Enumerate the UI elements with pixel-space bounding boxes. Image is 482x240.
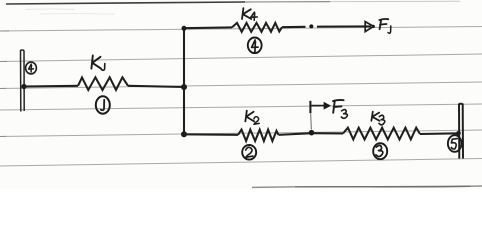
node label 5 (circled) at right wall: [448, 135, 462, 152]
ruled line 1: [0, 27, 482, 32]
element number 3 (circled): [373, 143, 387, 159]
wire from spring K3 to right wall: [420, 132, 459, 135]
ruled line 5: [0, 130, 482, 137]
node dot bottom of connector: [181, 131, 187, 137]
node label 4 (circled) at left wall: [26, 62, 37, 74]
paper background: [0, 0, 482, 189]
ruled line 6: [0, 159, 482, 167]
spring K3: [343, 128, 420, 140]
label K2: [245, 111, 259, 125]
spring K2: [238, 130, 279, 141]
faint pencil smudge top-left: [25, 8, 75, 11]
wall W2 (right fixed support): [459, 104, 463, 159]
wire from spring K2 to F3 node: [279, 133, 312, 135]
label F1: [379, 19, 390, 33]
element number 4 (circled): [248, 38, 262, 54]
force arrow F3 with reference tick: [310, 101, 330, 130]
force arrow F1: [317, 22, 375, 32]
label K3: [371, 112, 384, 125]
label F3: [333, 100, 347, 118]
wire top branch to spring K4: [184, 26, 232, 29]
ruled line left-edge dark ticks: [0, 31, 9, 137]
ruled line 2: [0, 54, 482, 62]
wire from F3 node to spring K3: [312, 132, 344, 134]
spring K1: [78, 77, 128, 90]
wire bottom branch to spring K2: [184, 133, 238, 136]
junction dot at right wall: [456, 131, 461, 136]
label K4: [242, 8, 257, 20]
node dot before force F1: [309, 24, 313, 28]
ruled line 3: [0, 82, 482, 89]
top page edge line: [6, 2, 245, 4]
wire from left wall to spring K1: [24, 85, 78, 88]
label K1: [91, 56, 104, 71]
wall W1 (left fixed support): [21, 50, 25, 112]
ruled line 4: [0, 104, 482, 110]
junction dot at left wall: [21, 84, 26, 89]
wire top branch from spring K4 to node: [282, 26, 306, 28]
bottom page edge smudge: [252, 186, 482, 187]
wire from spring K1 to center junction: [128, 86, 184, 87]
wire vertical connector: [183, 28, 185, 134]
spring K4: [232, 23, 282, 32]
element number 1 (circled): [96, 96, 110, 113]
element number 2 (circled): [242, 145, 256, 160]
node dot top of connector: [182, 26, 187, 31]
node B junction dot (center): [181, 84, 187, 90]
node dot at F3 application point: [309, 130, 315, 136]
